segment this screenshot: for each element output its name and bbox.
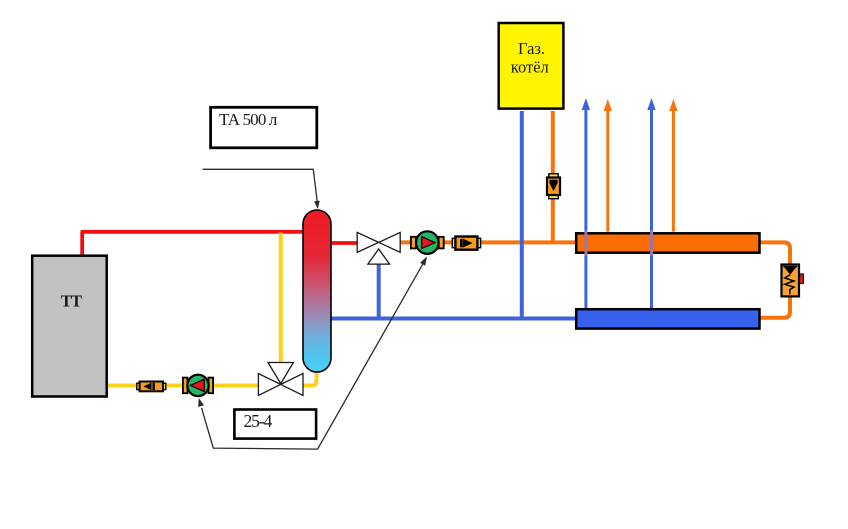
wire: orange loop radiator right to bypass valve <box>759 242 790 265</box>
label box "25-4" <box>234 410 316 439</box>
label box "ТА 500 л" <box>211 107 317 148</box>
check valve CV3 (under gas boiler, arrow down) <box>547 174 560 199</box>
svg-text:Газ.: Газ. <box>518 39 545 58</box>
wire: yellow from valve V1 up into accumulator bottom <box>302 368 317 386</box>
blue flow arrow A1 <box>582 98 590 308</box>
radiator RAD1 (heating circuit, orange) <box>576 233 759 252</box>
pointer arrows from 25-4 label to pumps P1 and P2 <box>198 257 427 450</box>
3-way valve V1 (boiler loop) <box>258 363 303 396</box>
blue flow arrow A3 <box>647 98 655 308</box>
pointer arrow from TA label to accumulator <box>203 169 320 209</box>
svg-text:котёл: котёл <box>511 57 549 76</box>
wire: blue drop from gas boiler to return line <box>520 111 524 319</box>
wire: yellow riser from red line down to 3-way valve V1 <box>279 233 283 366</box>
wire: blue return accumulator to blue radiator <box>324 317 576 321</box>
svg-text:25-4: 25-4 <box>244 411 273 431</box>
wire: orange drop from gas boiler to supply line <box>551 111 555 242</box>
svg-text:ТТ: ТТ <box>61 292 82 311</box>
wire: red stub accumulator right to 3-way valve V2 <box>324 241 359 245</box>
boiler TT (solid fuel) <box>32 256 107 397</box>
check valve CV2 (radiator supply, arrow right) <box>452 237 480 250</box>
orange flow arrow A2 <box>604 99 612 232</box>
radiator RAD2 (return, blue) <box>576 309 759 328</box>
accumulator tank TA (stratified capsule) <box>303 210 331 372</box>
bypass differential valve (right of radiators) <box>782 265 804 297</box>
wire: orange supply valve V2/pump to orange radiator <box>400 240 576 244</box>
3-way valve V2 (radiator supply) <box>357 232 400 264</box>
pump P2 (radiator circuit, flow right) <box>411 231 444 254</box>
wire: orange loop bypass valve to blue radiator right <box>759 296 790 318</box>
check valve CV1 (boiler return, arrow left) <box>137 382 166 392</box>
wire: yellow return TT boiler to 3-way valve V1 <box>107 384 259 388</box>
svg-text:ТА 500 л: ТА 500 л <box>219 110 278 129</box>
pump P1 (boiler circuit, flow left) <box>183 375 213 396</box>
wire: red supply TT boiler to accumulator <box>82 232 317 255</box>
orange flow arrow A4 <box>669 99 677 232</box>
gas boiler (Газ. котёл) <box>499 23 564 109</box>
wire: blue from valve V2 bottom down to return line <box>377 263 381 319</box>
